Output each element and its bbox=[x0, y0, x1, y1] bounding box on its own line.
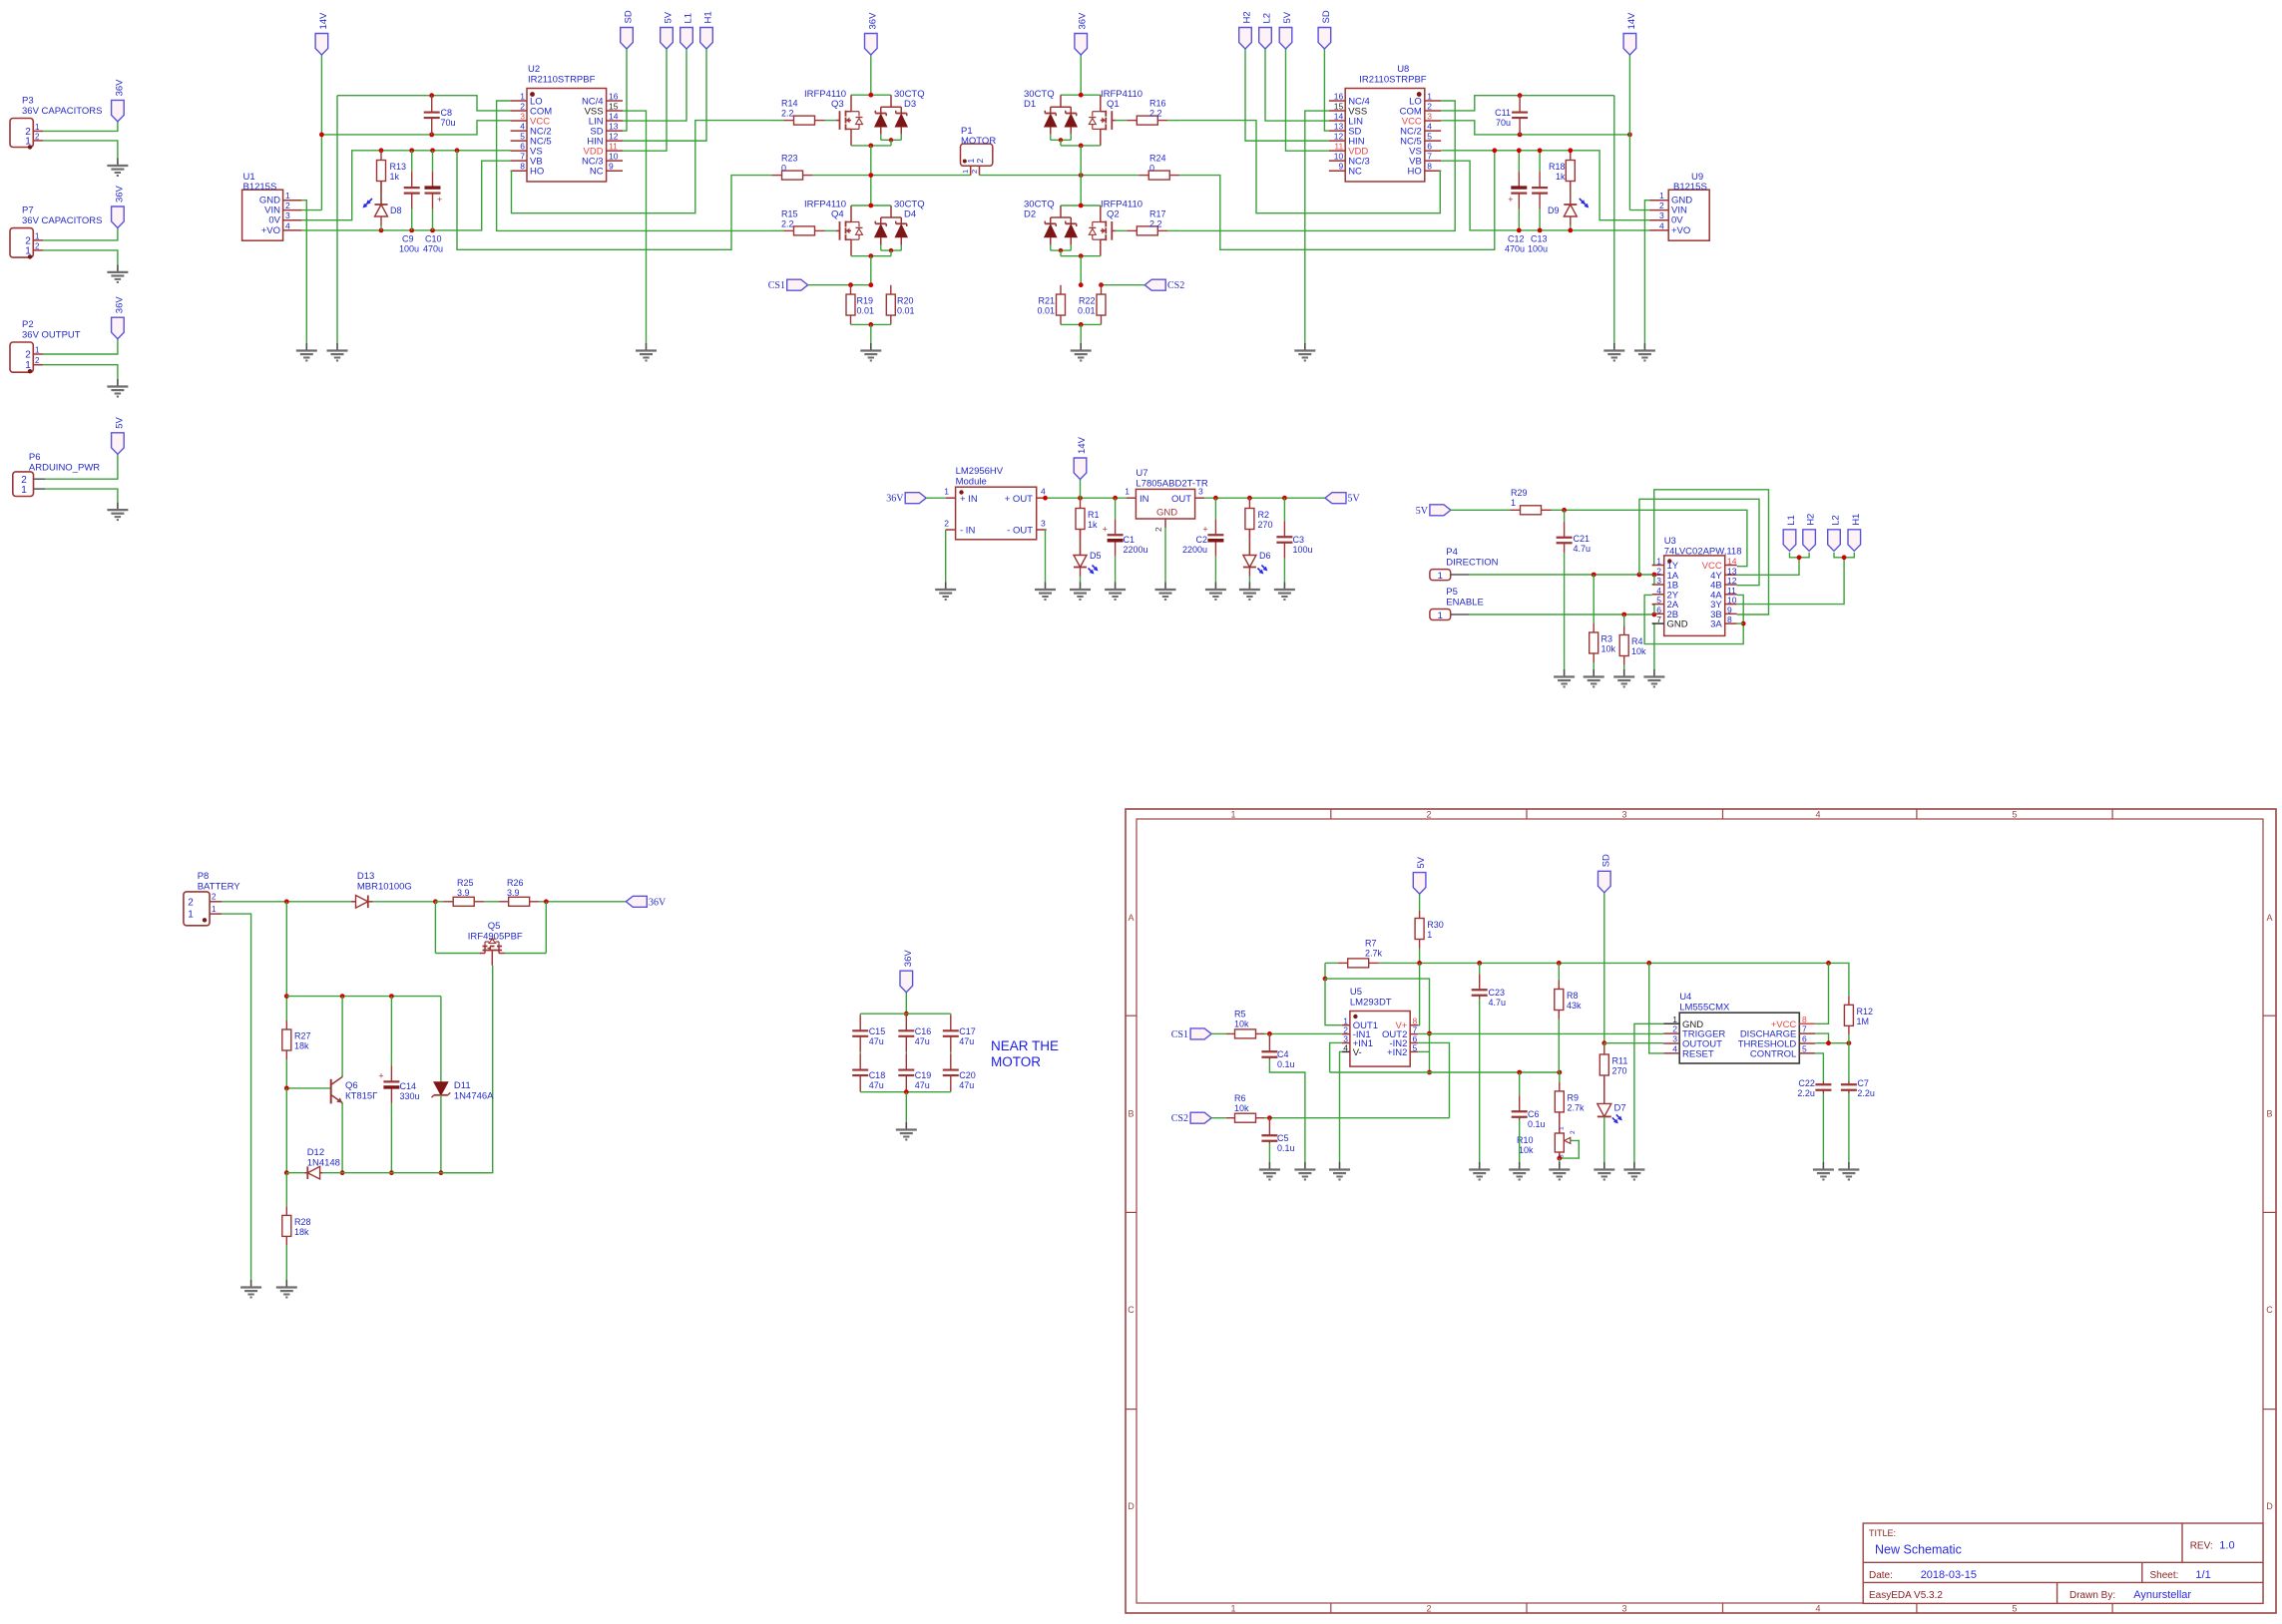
junction bridge mid left top bbox=[868, 144, 873, 149]
wire P7 pin1 to 36V flag bbox=[43, 228, 118, 240]
svg-text:Drawn By:: Drawn By: bbox=[2069, 1590, 2115, 1601]
annotation NEAR THE MOTOR bbox=[991, 1038, 1059, 1069]
junction Q2 top rail bbox=[1079, 203, 1084, 208]
wire Q6 collector bbox=[341, 997, 343, 1077]
wire CS2 to R6 bbox=[1211, 1117, 1226, 1119]
svg-text:4: 4 bbox=[1041, 487, 1046, 497]
junction shunt bottom left bbox=[868, 322, 873, 327]
capacitor C13 100u bbox=[1532, 151, 1548, 230]
svg-text:2: 2 bbox=[1659, 201, 1664, 210]
resistor R20 0.01 bbox=[886, 285, 914, 325]
buck module LM2956HV bbox=[944, 466, 1046, 540]
junction row/R8R9 bbox=[1557, 1070, 1562, 1075]
svg-text:0.01: 0.01 bbox=[1078, 306, 1096, 316]
svg-text:36V: 36V bbox=[867, 12, 878, 30]
svg-text:D5: D5 bbox=[1090, 551, 1102, 561]
svg-text:36V: 36V bbox=[114, 185, 125, 203]
svg-text:+VO: +VO bbox=[261, 225, 280, 236]
svg-text:A: A bbox=[2266, 913, 2272, 923]
wire base row bbox=[286, 1087, 330, 1089]
junction C11 bottom bbox=[1518, 133, 1523, 138]
svg-text:L7805ABD2T-TR: L7805ABD2T-TR bbox=[1136, 479, 1207, 490]
junction C21 bbox=[1562, 508, 1567, 513]
power flag L2 bbox=[1259, 13, 1273, 49]
power flag 5V 555 bbox=[1413, 856, 1427, 894]
wire SD to 555 OUT bbox=[1603, 893, 1605, 1043]
wire SD to U8 SD bbox=[1324, 49, 1328, 131]
svg-text:10k: 10k bbox=[1234, 1103, 1249, 1113]
svg-text:2: 2 bbox=[975, 159, 985, 164]
junction 14V/VCC rail bbox=[319, 133, 324, 138]
wire R23 to motor P1 pin1 bbox=[813, 175, 971, 177]
svg-text:P6: P6 bbox=[29, 452, 41, 463]
svg-text:U4: U4 bbox=[1679, 992, 1691, 1003]
svg-text:+IN2: +IN2 bbox=[1387, 1047, 1407, 1058]
resistor R3 10k bbox=[1590, 575, 1616, 669]
svg-text:36V: 36V bbox=[114, 79, 125, 97]
svg-text:R19: R19 bbox=[857, 296, 874, 306]
svg-text:5: 5 bbox=[1802, 1043, 1807, 1053]
svg-text:0.01: 0.01 bbox=[857, 306, 875, 316]
svg-text:1k: 1k bbox=[1556, 172, 1566, 182]
svg-text:3: 3 bbox=[1427, 112, 1432, 122]
wire R7 to OUT1 node bbox=[1324, 963, 1326, 979]
svg-text:- IN: - IN bbox=[960, 526, 975, 537]
svg-text:R26: R26 bbox=[507, 878, 524, 888]
svg-text:15: 15 bbox=[1334, 102, 1344, 112]
svg-text:R21: R21 bbox=[1038, 296, 1055, 306]
svg-text:12: 12 bbox=[609, 132, 619, 142]
junction +VO/C9 bbox=[409, 228, 414, 233]
svg-text:2: 2 bbox=[944, 519, 949, 529]
wire 36V stem right bridge bbox=[1080, 55, 1082, 95]
power flag 5V at P6 bbox=[112, 417, 126, 455]
svg-text:R16: R16 bbox=[1149, 99, 1166, 109]
svg-text:47u: 47u bbox=[959, 1036, 974, 1046]
svg-text:100u: 100u bbox=[1293, 545, 1313, 555]
wire U3 GND to ground bbox=[1652, 623, 1654, 669]
resistor R11 270 bbox=[1599, 1043, 1627, 1104]
svg-text:C4: C4 bbox=[1277, 1049, 1289, 1059]
junction CS1/C4 bbox=[1267, 1031, 1272, 1036]
junction SD/R11/OUT bbox=[1601, 1040, 1606, 1045]
diode D12 1N4148 bbox=[286, 1147, 340, 1179]
svg-text:C15: C15 bbox=[869, 1026, 886, 1036]
power flag 5V left bbox=[661, 11, 675, 49]
wire +IN1 to row bbox=[1330, 1042, 1342, 1072]
net port 36V battery bbox=[626, 896, 667, 908]
svg-text:2: 2 bbox=[1153, 527, 1163, 532]
connector P4 DIRECTION bbox=[1430, 547, 1499, 582]
svg-text:R27: R27 bbox=[294, 1031, 311, 1041]
svg-text:14V: 14V bbox=[1626, 12, 1637, 30]
svg-text:NC: NC bbox=[1348, 167, 1362, 178]
svg-text:12: 12 bbox=[1334, 132, 1344, 142]
svg-text:2: 2 bbox=[1656, 566, 1661, 576]
svg-text:8: 8 bbox=[1427, 162, 1432, 172]
power flag H2 out bbox=[1803, 514, 1817, 552]
wire 5V to R29 bbox=[1451, 509, 1504, 511]
junction 14V flag/R1 bbox=[1078, 496, 1083, 501]
resistor R9 2.7k bbox=[1555, 1072, 1585, 1131]
svg-text:3: 3 bbox=[1659, 210, 1664, 220]
svg-text:0.01: 0.01 bbox=[1037, 306, 1055, 316]
svg-text:D9: D9 bbox=[1548, 205, 1560, 215]
junction DIRECTION 1A1B bbox=[1652, 573, 1657, 578]
svg-text:18k: 18k bbox=[294, 1227, 309, 1237]
svg-text:1N4746A: 1N4746A bbox=[454, 1091, 494, 1102]
junction R2 top bbox=[1247, 496, 1252, 501]
svg-text:1: 1 bbox=[1659, 191, 1664, 201]
svg-text:Module: Module bbox=[956, 477, 987, 488]
wire -IN2 to CS2 row bbox=[1418, 1042, 1449, 1117]
junction 0V/C12 bbox=[1517, 148, 1522, 153]
ground at U1 GND bbox=[296, 343, 317, 361]
svg-text:R11: R11 bbox=[1612, 1056, 1628, 1066]
svg-text:GND: GND bbox=[1667, 619, 1688, 630]
ground at C7 bbox=[1838, 1162, 1859, 1180]
resistor R7 2.7k bbox=[1325, 939, 1391, 968]
wire SD net U2 bbox=[623, 49, 627, 131]
svg-text:4.7u: 4.7u bbox=[1574, 544, 1592, 554]
svg-text:7: 7 bbox=[520, 152, 525, 162]
lead R13-D8 bbox=[380, 182, 382, 205]
svg-text:SD: SD bbox=[624, 10, 635, 23]
wire R10 wiper loop bbox=[1560, 1140, 1580, 1158]
lead R2-D6 bbox=[1248, 530, 1250, 557]
resistor R1 1k bbox=[1076, 498, 1100, 551]
ground at C2 bbox=[1205, 583, 1226, 601]
svg-text:10k: 10k bbox=[1601, 644, 1616, 654]
capacitor C20 47u bbox=[943, 1053, 976, 1092]
svg-text:1: 1 bbox=[1427, 92, 1432, 102]
svg-text:2200u: 2200u bbox=[1182, 545, 1207, 555]
wire Q2 bottom rail bbox=[1061, 255, 1101, 257]
svg-text:270: 270 bbox=[1612, 1066, 1627, 1076]
svg-text:5V: 5V bbox=[1416, 506, 1429, 517]
wire net 0V-VS left bbox=[302, 151, 511, 220]
resistor R16 2.2 bbox=[1115, 99, 1179, 126]
ground at R4 bbox=[1613, 669, 1634, 687]
wire U2 HO to R14 bbox=[511, 121, 772, 213]
wire CS2 row bbox=[1102, 284, 1145, 286]
power flag 14V mid bbox=[1074, 436, 1088, 479]
junction DISCH/THRESH bbox=[1826, 1040, 1831, 1045]
capacitor C18 47u bbox=[852, 1053, 885, 1092]
svg-text:2.2: 2.2 bbox=[781, 109, 794, 119]
wire R12 C7 column bbox=[1848, 1043, 1850, 1081]
wire Q1/D1 top rail bbox=[1061, 94, 1101, 96]
svg-text:SD: SD bbox=[1600, 854, 1611, 867]
net port CS1 555 bbox=[1171, 1028, 1211, 1040]
wire motor caps to ground bbox=[905, 1092, 907, 1122]
wire R6 to -IN2 bbox=[1264, 1117, 1450, 1119]
capacitor C1 2200u bbox=[1103, 498, 1148, 582]
svg-text:5V: 5V bbox=[1348, 494, 1361, 505]
svg-text:0: 0 bbox=[781, 164, 786, 174]
svg-text:C2: C2 bbox=[1195, 535, 1207, 545]
resistor R29 1 bbox=[1504, 488, 1558, 515]
junction DIRECTION/4B bbox=[1637, 573, 1642, 578]
wire V+ to rail bbox=[1418, 963, 1419, 1024]
LED D8 bbox=[362, 199, 401, 230]
resistor R28 18k bbox=[282, 1173, 311, 1280]
title block bbox=[1863, 1523, 2263, 1603]
wire CONTROL to C22 bbox=[1815, 1053, 1823, 1081]
svg-text:1: 1 bbox=[21, 485, 27, 496]
svg-text:1: 1 bbox=[944, 487, 949, 497]
junction D12 left bbox=[284, 1170, 289, 1175]
svg-text:GND: GND bbox=[1156, 508, 1177, 519]
lead R9-R10 bbox=[1559, 1112, 1561, 1133]
power flag H2 bbox=[1239, 11, 1253, 49]
svg-text:C16: C16 bbox=[915, 1026, 932, 1036]
ground at D7 bbox=[1594, 1162, 1614, 1180]
lead R1-D5 bbox=[1080, 530, 1082, 557]
svg-text:9: 9 bbox=[1727, 605, 1732, 614]
svg-text:470u: 470u bbox=[423, 244, 443, 254]
wire battery plus row bbox=[222, 901, 351, 903]
diode D2 30CTQ bbox=[1024, 200, 1077, 256]
wire C8 top rail to ground bbox=[336, 96, 338, 343]
ground at motor caps bbox=[896, 1122, 917, 1140]
junction +VO/C13 bbox=[1538, 228, 1543, 233]
svg-text:0.1u: 0.1u bbox=[1277, 1143, 1295, 1153]
junction R25/Q5 left bbox=[433, 899, 438, 904]
svg-text:4: 4 bbox=[1815, 1604, 1820, 1614]
junction D12/C14 bbox=[389, 1170, 394, 1175]
label C9 100u bbox=[399, 234, 419, 254]
wire DIRECTION row bbox=[1469, 574, 1651, 576]
svg-text:R30: R30 bbox=[1427, 920, 1444, 930]
svg-text:10k: 10k bbox=[1234, 1019, 1249, 1029]
transistor Q4 IRFP4110 bbox=[804, 200, 863, 256]
svg-text:4: 4 bbox=[1343, 1042, 1348, 1052]
svg-text:B1215S: B1215S bbox=[243, 182, 277, 193]
wire U8 VSS to ground bbox=[1305, 111, 1329, 343]
svg-text:1k: 1k bbox=[390, 172, 400, 182]
svg-text:D3: D3 bbox=[904, 99, 916, 110]
wire DISCHARGE tie bbox=[1815, 1033, 1828, 1043]
svg-text:C6: C6 bbox=[1528, 1109, 1540, 1119]
svg-text:R6: R6 bbox=[1234, 1093, 1246, 1103]
svg-text:3: 3 bbox=[1198, 487, 1203, 497]
svg-text:C17: C17 bbox=[959, 1026, 976, 1036]
junction 0V/VSnode bbox=[455, 148, 460, 153]
connector P6 ARDUINO_PWR bbox=[13, 452, 100, 497]
power flag SD right bbox=[1318, 10, 1332, 49]
wire 555 OUT row bbox=[1604, 1042, 1663, 1044]
svg-text:C5: C5 bbox=[1277, 1133, 1289, 1143]
svg-text:6: 6 bbox=[1427, 142, 1432, 152]
net port CS2 555 bbox=[1171, 1112, 1211, 1124]
svg-text:CS2: CS2 bbox=[1171, 1113, 1188, 1124]
svg-text:1: 1 bbox=[1511, 498, 1516, 508]
svg-text:5V: 5V bbox=[1416, 856, 1427, 868]
svg-text:D7: D7 bbox=[1614, 1103, 1626, 1114]
svg-text:R2: R2 bbox=[1258, 510, 1270, 520]
svg-text:D12: D12 bbox=[307, 1147, 324, 1158]
wire +OUT 14V rail bbox=[1047, 497, 1127, 499]
svg-text:D2: D2 bbox=[1024, 209, 1036, 220]
label C12 470u bbox=[1505, 234, 1525, 254]
svg-text:P5: P5 bbox=[1446, 587, 1458, 598]
trimmer R10 10k bbox=[1517, 1126, 1577, 1158]
resistor R18 1k bbox=[1549, 151, 1575, 203]
svg-text:1: 1 bbox=[1230, 810, 1235, 820]
svg-text:C22: C22 bbox=[1798, 1078, 1815, 1088]
svg-text:3: 3 bbox=[1672, 1034, 1677, 1044]
junction 0V/C9 bbox=[409, 148, 414, 153]
wire D7 to ground bbox=[1603, 1116, 1605, 1162]
resistor R30 1 bbox=[1415, 911, 1444, 963]
junction midpoint/R24 right bbox=[1079, 173, 1084, 178]
svg-text:LM293DT: LM293DT bbox=[1350, 998, 1392, 1009]
svg-text:2: 2 bbox=[212, 893, 217, 902]
svg-text:C: C bbox=[2266, 1305, 2273, 1315]
wire D13 to R25 bbox=[373, 901, 436, 903]
capacitor C17 47u bbox=[943, 1014, 976, 1053]
wire U2 VSS to ground bbox=[623, 111, 647, 343]
svg-text:Q2: Q2 bbox=[1107, 209, 1120, 220]
wire OUT1 pin bbox=[1325, 979, 1342, 1025]
resistor R14 2.2 bbox=[772, 99, 837, 126]
ground at R3 bbox=[1584, 669, 1604, 687]
svg-text:P7: P7 bbox=[22, 205, 34, 216]
svg-text:C9: C9 bbox=[402, 234, 414, 244]
timer U4 LM555CMX bbox=[1663, 992, 1815, 1063]
junction DIRECTION/R3 bbox=[1592, 573, 1597, 578]
svg-text:LM555CMX: LM555CMX bbox=[1679, 1003, 1730, 1014]
svg-text:47u: 47u bbox=[915, 1080, 930, 1090]
svg-text:H1: H1 bbox=[703, 11, 714, 23]
svg-text:2.2: 2.2 bbox=[781, 219, 794, 229]
wire Q4 top rail bbox=[851, 204, 891, 206]
label C13 100u bbox=[1528, 234, 1548, 254]
junction Q2 bottom rail bbox=[1079, 253, 1084, 258]
svg-text:4.7u: 4.7u bbox=[1489, 998, 1507, 1008]
wire U9 GND to ground bbox=[1644, 201, 1649, 343]
svg-text:Q4: Q4 bbox=[831, 209, 844, 220]
capacitor C22 2.2u bbox=[1797, 1078, 1831, 1098]
svg-text:4: 4 bbox=[285, 220, 290, 230]
svg-text:36V CAPACITORS: 36V CAPACITORS bbox=[22, 106, 102, 117]
wire C11 top rail to COM bbox=[1441, 96, 1614, 111]
svg-text:Sheet:: Sheet: bbox=[2150, 1570, 2179, 1581]
svg-text:2: 2 bbox=[1426, 810, 1431, 820]
svg-text:L1: L1 bbox=[684, 13, 694, 24]
ground at R10 bbox=[1549, 1162, 1570, 1180]
junction C8 bottom bbox=[429, 133, 434, 138]
svg-text:2: 2 bbox=[1426, 1604, 1431, 1614]
svg-text:2: 2 bbox=[520, 102, 525, 112]
LED D6 bbox=[1243, 551, 1271, 583]
wire battery pin1 to ground bbox=[222, 914, 251, 1280]
junction battery plus bbox=[284, 899, 289, 904]
svg-text:Aynurstellar: Aynurstellar bbox=[2133, 1589, 2191, 1601]
svg-text:R1: R1 bbox=[1088, 510, 1100, 520]
junction tie row left bbox=[284, 994, 289, 999]
svg-text:100u: 100u bbox=[399, 244, 419, 254]
svg-text:C19: C19 bbox=[915, 1070, 932, 1080]
sheet border frame bbox=[1126, 809, 2276, 1614]
resistor R15 2.2 bbox=[772, 209, 837, 235]
svg-text:1: 1 bbox=[1438, 610, 1443, 621]
diode D13 MBR10100G bbox=[351, 871, 412, 908]
svg-text:B: B bbox=[1128, 1109, 1134, 1119]
wire C21 to ground bbox=[1564, 553, 1566, 669]
junction shunt bottom right bbox=[1079, 322, 1084, 327]
wire D12 row bbox=[322, 1172, 491, 1174]
capacitor C23 4.7u bbox=[1472, 963, 1506, 1008]
ground at U4 GND bbox=[1623, 1162, 1644, 1180]
svg-text:REV:: REV: bbox=[2190, 1541, 2213, 1552]
svg-text:MOTOR: MOTOR bbox=[991, 1054, 1041, 1069]
svg-text:47u: 47u bbox=[915, 1036, 930, 1046]
power flag 36V right bridge bbox=[1075, 12, 1089, 55]
diode D3 30CTQ bbox=[875, 89, 925, 146]
svg-text:+VO: +VO bbox=[1671, 225, 1690, 236]
capacitor C11 70u bbox=[1495, 96, 1528, 135]
wire OUT2 TRIGGER row bbox=[1418, 1032, 1663, 1034]
wire Q4 bottom rail bbox=[851, 255, 891, 257]
transistor Q1 IRFP4110 bbox=[1089, 89, 1142, 146]
junction R10 bottom bbox=[1557, 1156, 1562, 1161]
resistor R6 10k bbox=[1226, 1093, 1264, 1122]
wire U4 GND to ground bbox=[1634, 1023, 1663, 1162]
ground at C3 bbox=[1274, 583, 1295, 601]
junction rail/R8 bbox=[1557, 961, 1562, 966]
junction motor caps top bbox=[904, 1012, 909, 1016]
svg-text:OUT: OUT bbox=[1171, 494, 1191, 505]
svg-text:R3: R3 bbox=[1601, 634, 1613, 644]
wire P2 pin2 to ground bbox=[43, 365, 118, 379]
svg-text:470u: 470u bbox=[1505, 244, 1525, 254]
junction 3A bbox=[1741, 621, 1746, 626]
resistor R25 3.9 bbox=[435, 878, 492, 906]
svg-text:2: 2 bbox=[1427, 102, 1432, 112]
svg-text:C3: C3 bbox=[1293, 535, 1305, 545]
svg-text:6: 6 bbox=[520, 142, 525, 152]
svg-text:RESET: RESET bbox=[1682, 1048, 1714, 1059]
capacitor C16 47u bbox=[898, 1014, 931, 1053]
junction +VO/C10 bbox=[430, 228, 435, 233]
svg-text:8: 8 bbox=[1727, 614, 1732, 624]
svg-text:IR2110STRPBF: IR2110STRPBF bbox=[528, 75, 596, 86]
svg-text:R9: R9 bbox=[1568, 1092, 1580, 1102]
svg-text:+: + bbox=[437, 195, 442, 204]
svg-text:R7: R7 bbox=[1365, 939, 1377, 949]
svg-text:7: 7 bbox=[1427, 152, 1432, 162]
lead R11-D7 bbox=[1603, 1075, 1605, 1104]
svg-text:36V: 36V bbox=[1078, 12, 1089, 30]
ground at battery minus bbox=[240, 1280, 261, 1298]
svg-text:+ IN: + IN bbox=[960, 494, 978, 505]
wire 14V net left bbox=[320, 55, 322, 210]
svg-text:B1215S: B1215S bbox=[1673, 182, 1707, 193]
wire C6 to ground bbox=[1519, 1120, 1521, 1163]
svg-text:R22: R22 bbox=[1079, 296, 1096, 306]
wire shunt bottom rail right bbox=[1061, 323, 1102, 325]
svg-text:1/1: 1/1 bbox=[2195, 1569, 2210, 1581]
svg-text:3.9: 3.9 bbox=[507, 888, 520, 898]
svg-text:10k: 10k bbox=[1631, 646, 1646, 656]
svg-text:CS1: CS1 bbox=[768, 280, 785, 291]
svg-text:R12: R12 bbox=[1857, 1007, 1874, 1016]
svg-text:2.2: 2.2 bbox=[1149, 219, 1162, 229]
transistor Q2 IRFP4110 bbox=[1089, 200, 1142, 256]
svg-text:NEAR THE: NEAR THE bbox=[991, 1038, 1059, 1053]
